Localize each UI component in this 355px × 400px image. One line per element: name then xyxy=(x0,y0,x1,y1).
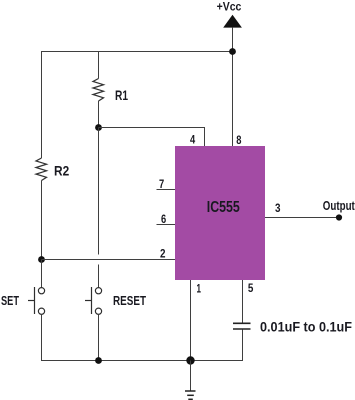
svg-text:Output: Output xyxy=(323,198,355,213)
wire reset column (crossover gap to RESET switch) xyxy=(98,265,100,288)
wire pin 5 column (IC to capacitor) xyxy=(242,280,244,323)
svg-text:1: 1 xyxy=(197,282,202,296)
resistor R1 xyxy=(93,79,128,104)
wire left column upper (top rail to R2) xyxy=(41,51,43,158)
wire bottom rail xyxy=(41,360,243,362)
svg-text:3: 3 xyxy=(275,201,281,215)
node A junction dot (left column / pin2 wire) xyxy=(38,256,45,263)
wire reset column (RESET to bottom rail) xyxy=(98,314,100,360)
svg-text:6: 6 xyxy=(161,212,166,226)
switch RESET xyxy=(85,287,146,314)
wire capacitor to bottom rail xyxy=(242,330,244,361)
wire left column (R2 to node A) xyxy=(41,181,43,260)
svg-text:2: 2 xyxy=(160,246,166,260)
wire pin 1 column (IC to bottom rail) xyxy=(190,280,192,360)
wire Vcc column (triangle to pin 8) xyxy=(232,28,234,146)
svg-text:0.01uF to 0.1uF: 0.01uF to 0.1uF xyxy=(260,319,352,335)
pin 6 stub wire xyxy=(157,224,176,226)
svg-text:5: 5 xyxy=(248,281,254,295)
svg-text:IC555: IC555 xyxy=(207,199,240,216)
node B junction dot (R1 bottom / pin4 wire / reset column) xyxy=(95,124,102,131)
svg-text:4: 4 xyxy=(190,133,195,147)
junction dot (reset column / bottom rail) xyxy=(95,357,102,364)
wire ground drop xyxy=(190,361,192,392)
capacitor C1 xyxy=(233,319,352,335)
Vcc supply triangle xyxy=(223,15,242,28)
resistor R2 xyxy=(36,158,69,181)
svg-text:RESET: RESET xyxy=(113,294,146,308)
wire pin4 horizontal xyxy=(99,128,205,147)
wire pin 3 output xyxy=(265,217,339,219)
svg-text:SET: SET xyxy=(1,294,19,308)
svg-text:R2: R2 xyxy=(54,163,69,179)
svg-text:8: 8 xyxy=(236,133,241,147)
output terminal dot xyxy=(336,214,342,220)
svg-text:R1: R1 xyxy=(115,87,128,103)
switch SET xyxy=(1,287,45,314)
junction dot (pin1 column / bottom rail / ground) xyxy=(186,356,194,364)
svg-text:7: 7 xyxy=(159,177,164,191)
wire R1 column (R1 to node B) xyxy=(98,101,100,127)
junction dot (top rail / Vcc column) xyxy=(229,48,236,55)
IC555 U1 body xyxy=(175,146,265,280)
wire top horizontal rail xyxy=(41,51,233,53)
wire R1 column upper (top rail to R1) xyxy=(98,51,100,79)
wire left column (node A to SET) xyxy=(41,260,43,288)
wire left column (SET to bottom rail) xyxy=(41,314,43,360)
wire reset column (node B to crossover gap) xyxy=(98,128,100,255)
pin 7 stub wire xyxy=(157,189,176,191)
svg-text:+Vcc: +Vcc xyxy=(217,0,242,14)
ground xyxy=(185,391,196,399)
wire pin2 horizontal (node A to pin 2) xyxy=(42,259,176,261)
